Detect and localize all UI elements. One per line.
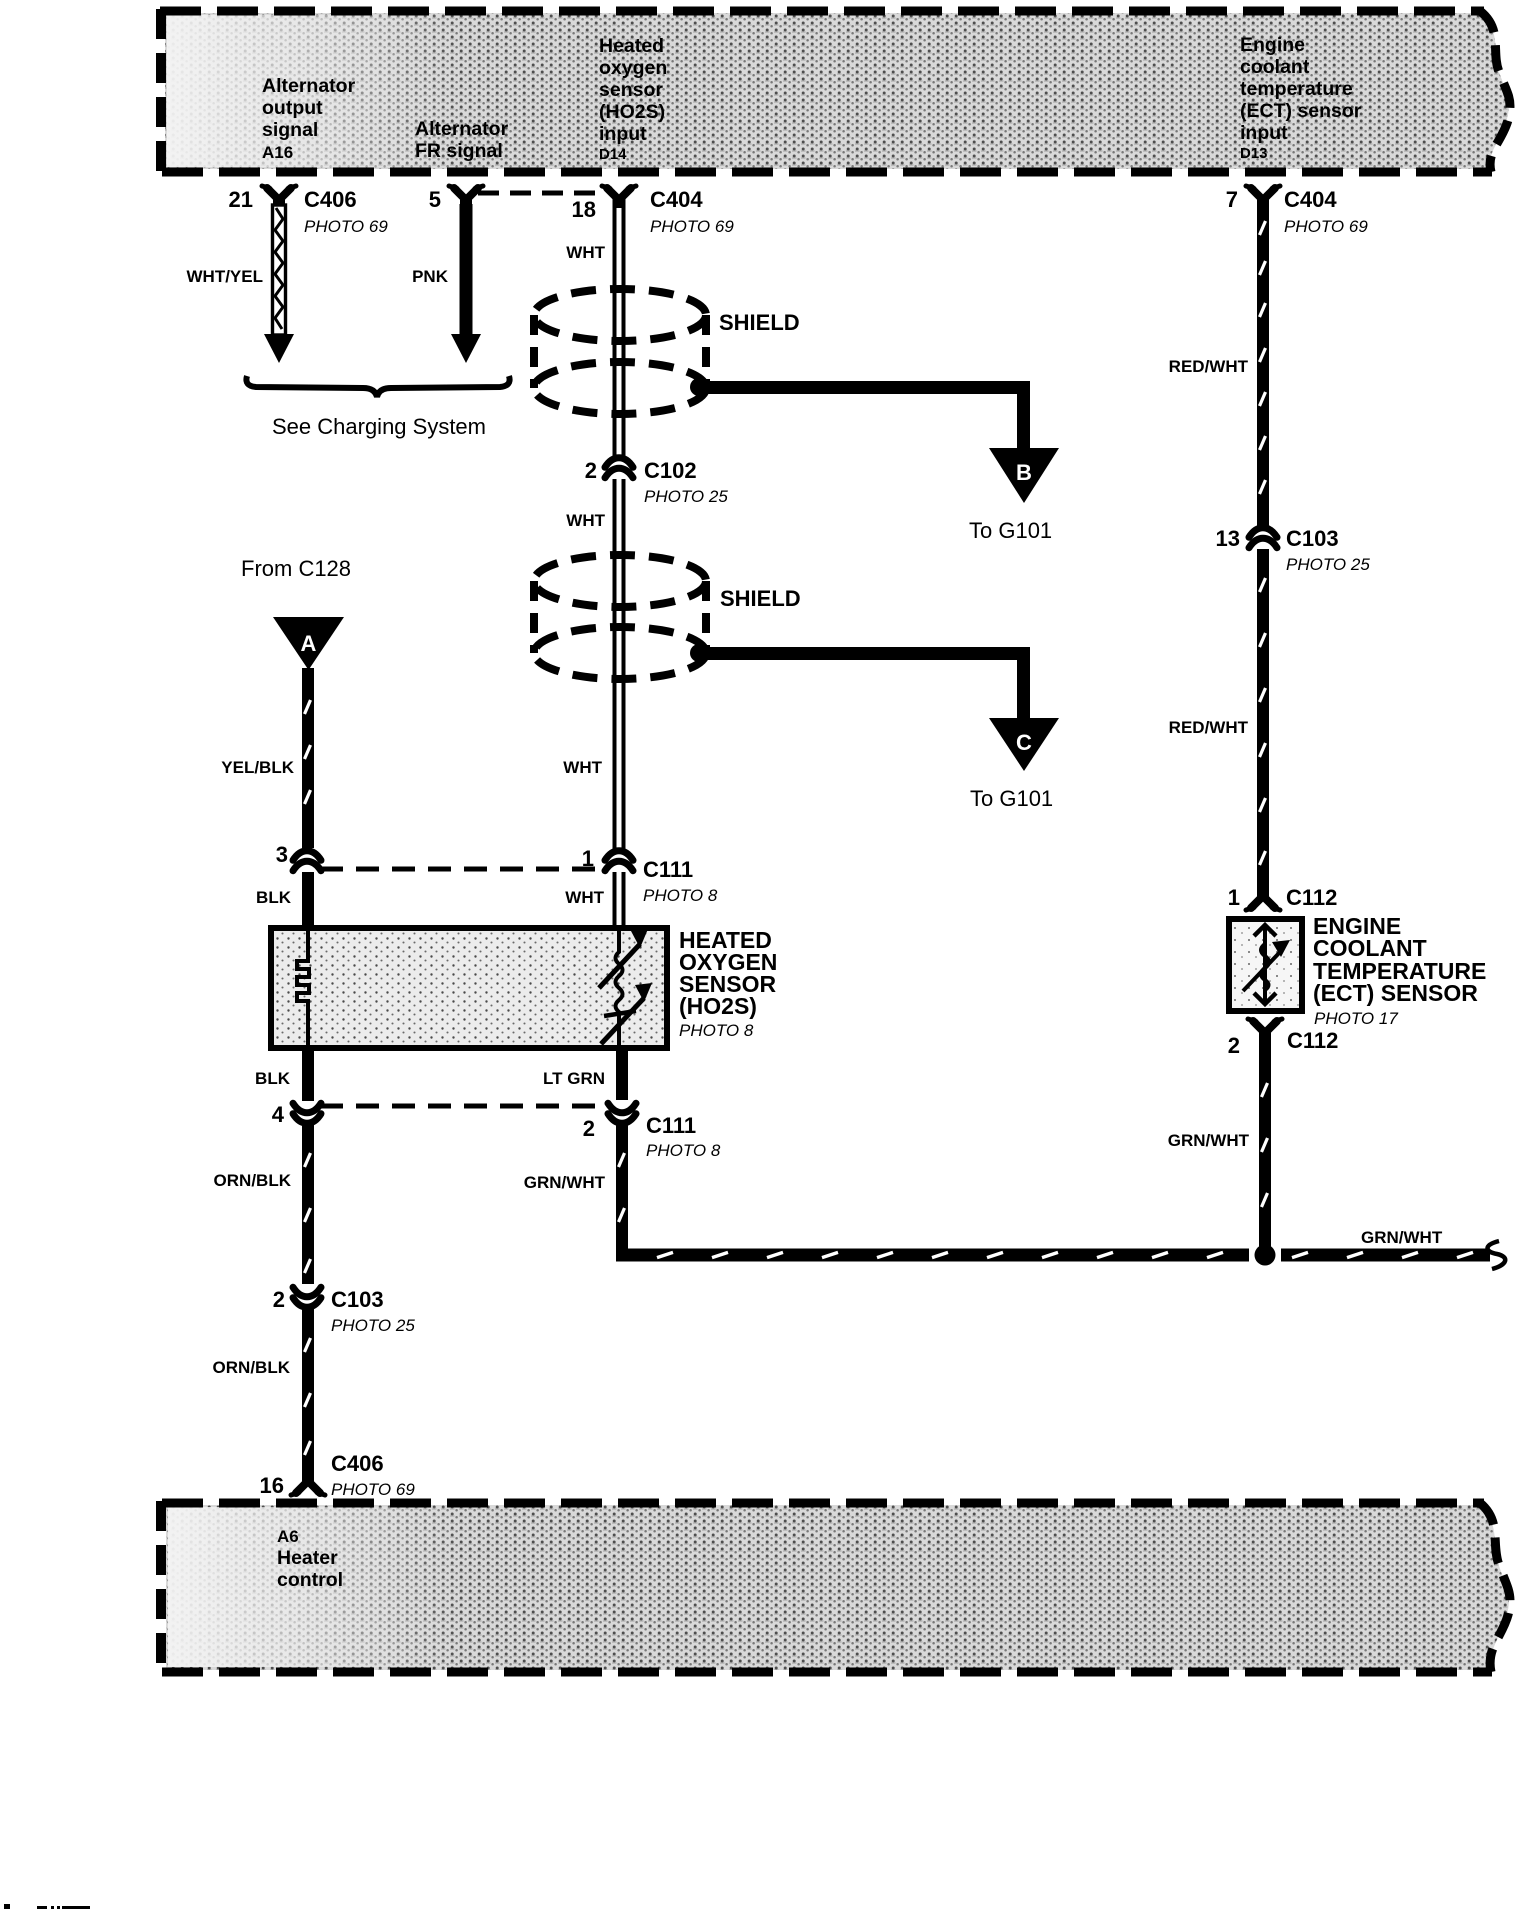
svg-text:Alternator: Alternator xyxy=(415,118,509,140)
banner label: Alternator output signal A16 xyxy=(262,75,356,162)
svg-text:PHOTO 69: PHOTO 69 xyxy=(1284,217,1368,236)
svg-text:To G101: To G101 xyxy=(970,786,1053,811)
svg-text:SHIELD: SHIELD xyxy=(719,310,800,335)
svg-text:PNK: PNK xyxy=(412,267,449,286)
connector C111 pin 1 xyxy=(565,846,718,907)
svg-text:YEL/BLK: YEL/BLK xyxy=(221,758,294,777)
wire RED/WHT (C404-7 to C103-13) xyxy=(1169,207,1269,526)
dashed tie line pin5 to pin18 xyxy=(478,191,606,196)
svg-text:From C128: From C128 xyxy=(241,556,351,581)
banner label: A6 Heater control xyxy=(277,1527,343,1591)
svg-text:3: 3 xyxy=(276,842,288,867)
svg-text:PHOTO 69: PHOTO 69 xyxy=(304,217,388,236)
svg-text:PHOTO 69: PHOTO 69 xyxy=(331,1480,415,1499)
node A (from C128) xyxy=(273,617,344,670)
svg-text:input: input xyxy=(1240,122,1288,144)
wire WHT (shielded) into HO2S box xyxy=(613,872,617,928)
shield symbol 1 xyxy=(534,289,706,414)
svg-text:2: 2 xyxy=(1228,1033,1240,1058)
svg-text:Alternator: Alternator xyxy=(262,75,356,97)
svg-text:oxygen: oxygen xyxy=(599,57,667,79)
svg-text:PHOTO 8: PHOTO 8 xyxy=(679,1021,754,1040)
svg-text:C102: C102 xyxy=(644,458,697,483)
svg-text:PHOTO 8: PHOTO 8 xyxy=(646,1141,721,1160)
brace (see charging system) xyxy=(246,376,509,397)
svg-text:C: C xyxy=(1016,730,1032,755)
svg-text:21: 21 xyxy=(229,187,253,212)
svg-text:GRN/WHT: GRN/WHT xyxy=(524,1173,606,1192)
wire to ground B xyxy=(699,381,1059,503)
svg-text:output: output xyxy=(262,97,323,119)
connector C406 pin 16 xyxy=(260,1451,416,1499)
svg-text:sensor: sensor xyxy=(599,79,663,101)
svg-text:PHOTO 69: PHOTO 69 xyxy=(650,217,734,236)
svg-text:control: control xyxy=(277,1569,343,1591)
svg-text:2: 2 xyxy=(583,1116,595,1141)
connector C404 pin 7 xyxy=(1226,186,1369,236)
svg-text:C112: C112 xyxy=(1286,885,1337,910)
svg-text:WHT: WHT xyxy=(566,511,605,530)
svg-text:Heated: Heated xyxy=(599,35,664,57)
svg-text:To G101: To G101 xyxy=(969,518,1052,543)
svg-text:2: 2 xyxy=(273,1287,285,1312)
svg-text:5: 5 xyxy=(429,187,441,212)
svg-text:D13: D13 xyxy=(1240,145,1268,162)
wire LT GRN (below HO2S) xyxy=(543,1048,628,1100)
banner label: Engine coolant temperature (ECT) sensor input D13 xyxy=(1240,34,1362,162)
engine coolant temperature ECT sensor box xyxy=(1229,919,1302,1011)
wire BLK (into HO2S) xyxy=(256,872,314,928)
svg-text:16: 16 xyxy=(260,1473,284,1498)
registration marks xyxy=(4,1904,10,1909)
junction node GRN/WHT xyxy=(1255,1245,1276,1266)
svg-text:C404: C404 xyxy=(650,187,703,212)
wire BLK (below HO2S) xyxy=(255,1048,314,1101)
wire PNK with arrow xyxy=(412,204,481,363)
heated oxygen sensor HO2S box xyxy=(271,928,667,1048)
wire WHT/YEL (striped) with arrow xyxy=(187,205,295,363)
svg-text:GRN/WHT: GRN/WHT xyxy=(1361,1228,1443,1247)
top banner (other-circuits strip) xyxy=(165,13,1509,169)
svg-text:B: B xyxy=(1016,460,1032,485)
svg-text:2: 2 xyxy=(585,458,597,483)
svg-text:C406: C406 xyxy=(304,187,357,212)
svg-text:WHT: WHT xyxy=(566,243,605,262)
HO2S heater element xyxy=(297,931,309,1045)
svg-text:RED/WHT: RED/WHT xyxy=(1169,718,1249,737)
ECT thermistor symbol xyxy=(1243,925,1290,1004)
svg-text:PHOTO 8: PHOTO 8 xyxy=(643,886,718,905)
svg-text:See Charging System: See Charging System xyxy=(272,414,486,439)
wire GRN/WHT (C111 pin2 down to junction) xyxy=(524,1124,628,1261)
dashed tie line pin3 to pin1 xyxy=(320,867,604,872)
banner label: Heated oxygen sensor (HO2S) input D14 xyxy=(599,35,667,163)
svg-text:C103: C103 xyxy=(331,1287,384,1312)
label ENGINE COOLANT TEMPERATURE (ECT) SENSOR PHOTO 17 xyxy=(1313,913,1486,1028)
svg-text:ORN/BLK: ORN/BLK xyxy=(213,1358,291,1377)
wire GRN/WHT horizontal run to junction xyxy=(616,1249,1249,1262)
svg-text:WHT/YEL: WHT/YEL xyxy=(187,267,264,286)
svg-text:C111: C111 xyxy=(646,1113,696,1138)
svg-text:WHT: WHT xyxy=(563,758,602,777)
label HEATED OXYGEN SENSOR (HO2S) PHOTO 8 xyxy=(679,927,777,1040)
svg-text:(ECT) SENSOR: (ECT) SENSOR xyxy=(1313,980,1478,1006)
svg-text:(ECT) sensor: (ECT) sensor xyxy=(1240,100,1362,122)
connector pin 3 (to C111 dashed tie) xyxy=(276,842,321,871)
wire GRN/WHT continues right (off page) xyxy=(1281,1228,1505,1269)
wire WHT (shielded) middle segment xyxy=(563,479,623,851)
svg-text:D14: D14 xyxy=(599,146,627,163)
svg-text:coolant: coolant xyxy=(1240,56,1310,78)
svg-text:4: 4 xyxy=(272,1102,285,1127)
svg-text:input: input xyxy=(599,123,647,145)
connector C404 pin 18 xyxy=(572,186,735,236)
svg-text:C111: C111 xyxy=(643,857,693,882)
svg-text:BLK: BLK xyxy=(255,1069,291,1088)
svg-text:13: 13 xyxy=(1216,526,1240,551)
svg-text:signal: signal xyxy=(262,119,318,141)
svg-text:A6: A6 xyxy=(277,1527,299,1546)
svg-text:FR signal: FR signal xyxy=(415,140,503,162)
svg-text:RED/WHT: RED/WHT xyxy=(1169,357,1249,376)
wire ORN/BLK (C103 to C406) xyxy=(213,1308,314,1474)
svg-text:BLK: BLK xyxy=(256,888,292,907)
shield symbol 2 xyxy=(534,555,706,679)
svg-text:C404: C404 xyxy=(1284,187,1337,212)
connector C103 pin 2 xyxy=(273,1287,416,1335)
connector C406 pin 5 xyxy=(429,186,483,212)
svg-text:SHIELD: SHIELD xyxy=(720,586,801,611)
wire WHT (shielded, double line) top segment xyxy=(566,199,623,457)
connector C112 pin 1 xyxy=(1228,885,1338,910)
dashed tie line pin4 to pin2 xyxy=(320,1104,604,1109)
svg-text:C103: C103 xyxy=(1286,526,1339,551)
wire RED/WHT (C103-13 to C112-1) xyxy=(1169,549,1269,890)
svg-text:Engine: Engine xyxy=(1240,34,1305,56)
svg-text:A16: A16 xyxy=(262,143,293,162)
connector C112 pin 2 xyxy=(1228,1019,1339,1058)
wire GRN/WHT (C112-2 down to junction) xyxy=(1168,1040,1271,1248)
svg-text:(HO2S): (HO2S) xyxy=(599,101,665,123)
svg-text:PHOTO 25: PHOTO 25 xyxy=(331,1316,415,1335)
svg-text:PHOTO 17: PHOTO 17 xyxy=(1314,1009,1398,1028)
svg-text:7: 7 xyxy=(1226,187,1238,212)
svg-text:C406: C406 xyxy=(331,1451,384,1476)
svg-text:1: 1 xyxy=(582,846,594,871)
svg-text:C112: C112 xyxy=(1287,1028,1338,1053)
svg-text:WHT: WHT xyxy=(565,888,604,907)
svg-text:temperature: temperature xyxy=(1240,78,1353,100)
connector C111 pin 2 xyxy=(583,1103,721,1160)
svg-text:LT GRN: LT GRN xyxy=(543,1069,605,1088)
svg-text:PHOTO 25: PHOTO 25 xyxy=(644,487,728,506)
svg-text:(HO2S): (HO2S) xyxy=(679,993,757,1019)
wire YEL/BLK xyxy=(221,668,314,848)
svg-text:A: A xyxy=(301,631,317,656)
svg-text:Heater: Heater xyxy=(277,1547,338,1569)
wire ORN/BLK (pin4 to C103) xyxy=(214,1124,314,1284)
connector C103 pin 13 xyxy=(1216,526,1371,574)
wire to ground C xyxy=(699,647,1059,771)
connector C102 pin 2 xyxy=(585,458,729,506)
svg-text:ORN/BLK: ORN/BLK xyxy=(214,1171,292,1190)
svg-text:18: 18 xyxy=(572,197,596,222)
connector pin 4 xyxy=(272,1102,321,1127)
svg-text:1: 1 xyxy=(1228,885,1240,910)
svg-text:GRN/WHT: GRN/WHT xyxy=(1168,1131,1250,1150)
svg-text:PHOTO 25: PHOTO 25 xyxy=(1286,555,1370,574)
bottom banner (heater control strip) xyxy=(166,1505,1509,1670)
banner label: Alternator FR signal xyxy=(415,118,509,162)
HO2S sensing element (variable) xyxy=(599,929,652,1045)
connector C406 pin 21 xyxy=(229,186,389,236)
